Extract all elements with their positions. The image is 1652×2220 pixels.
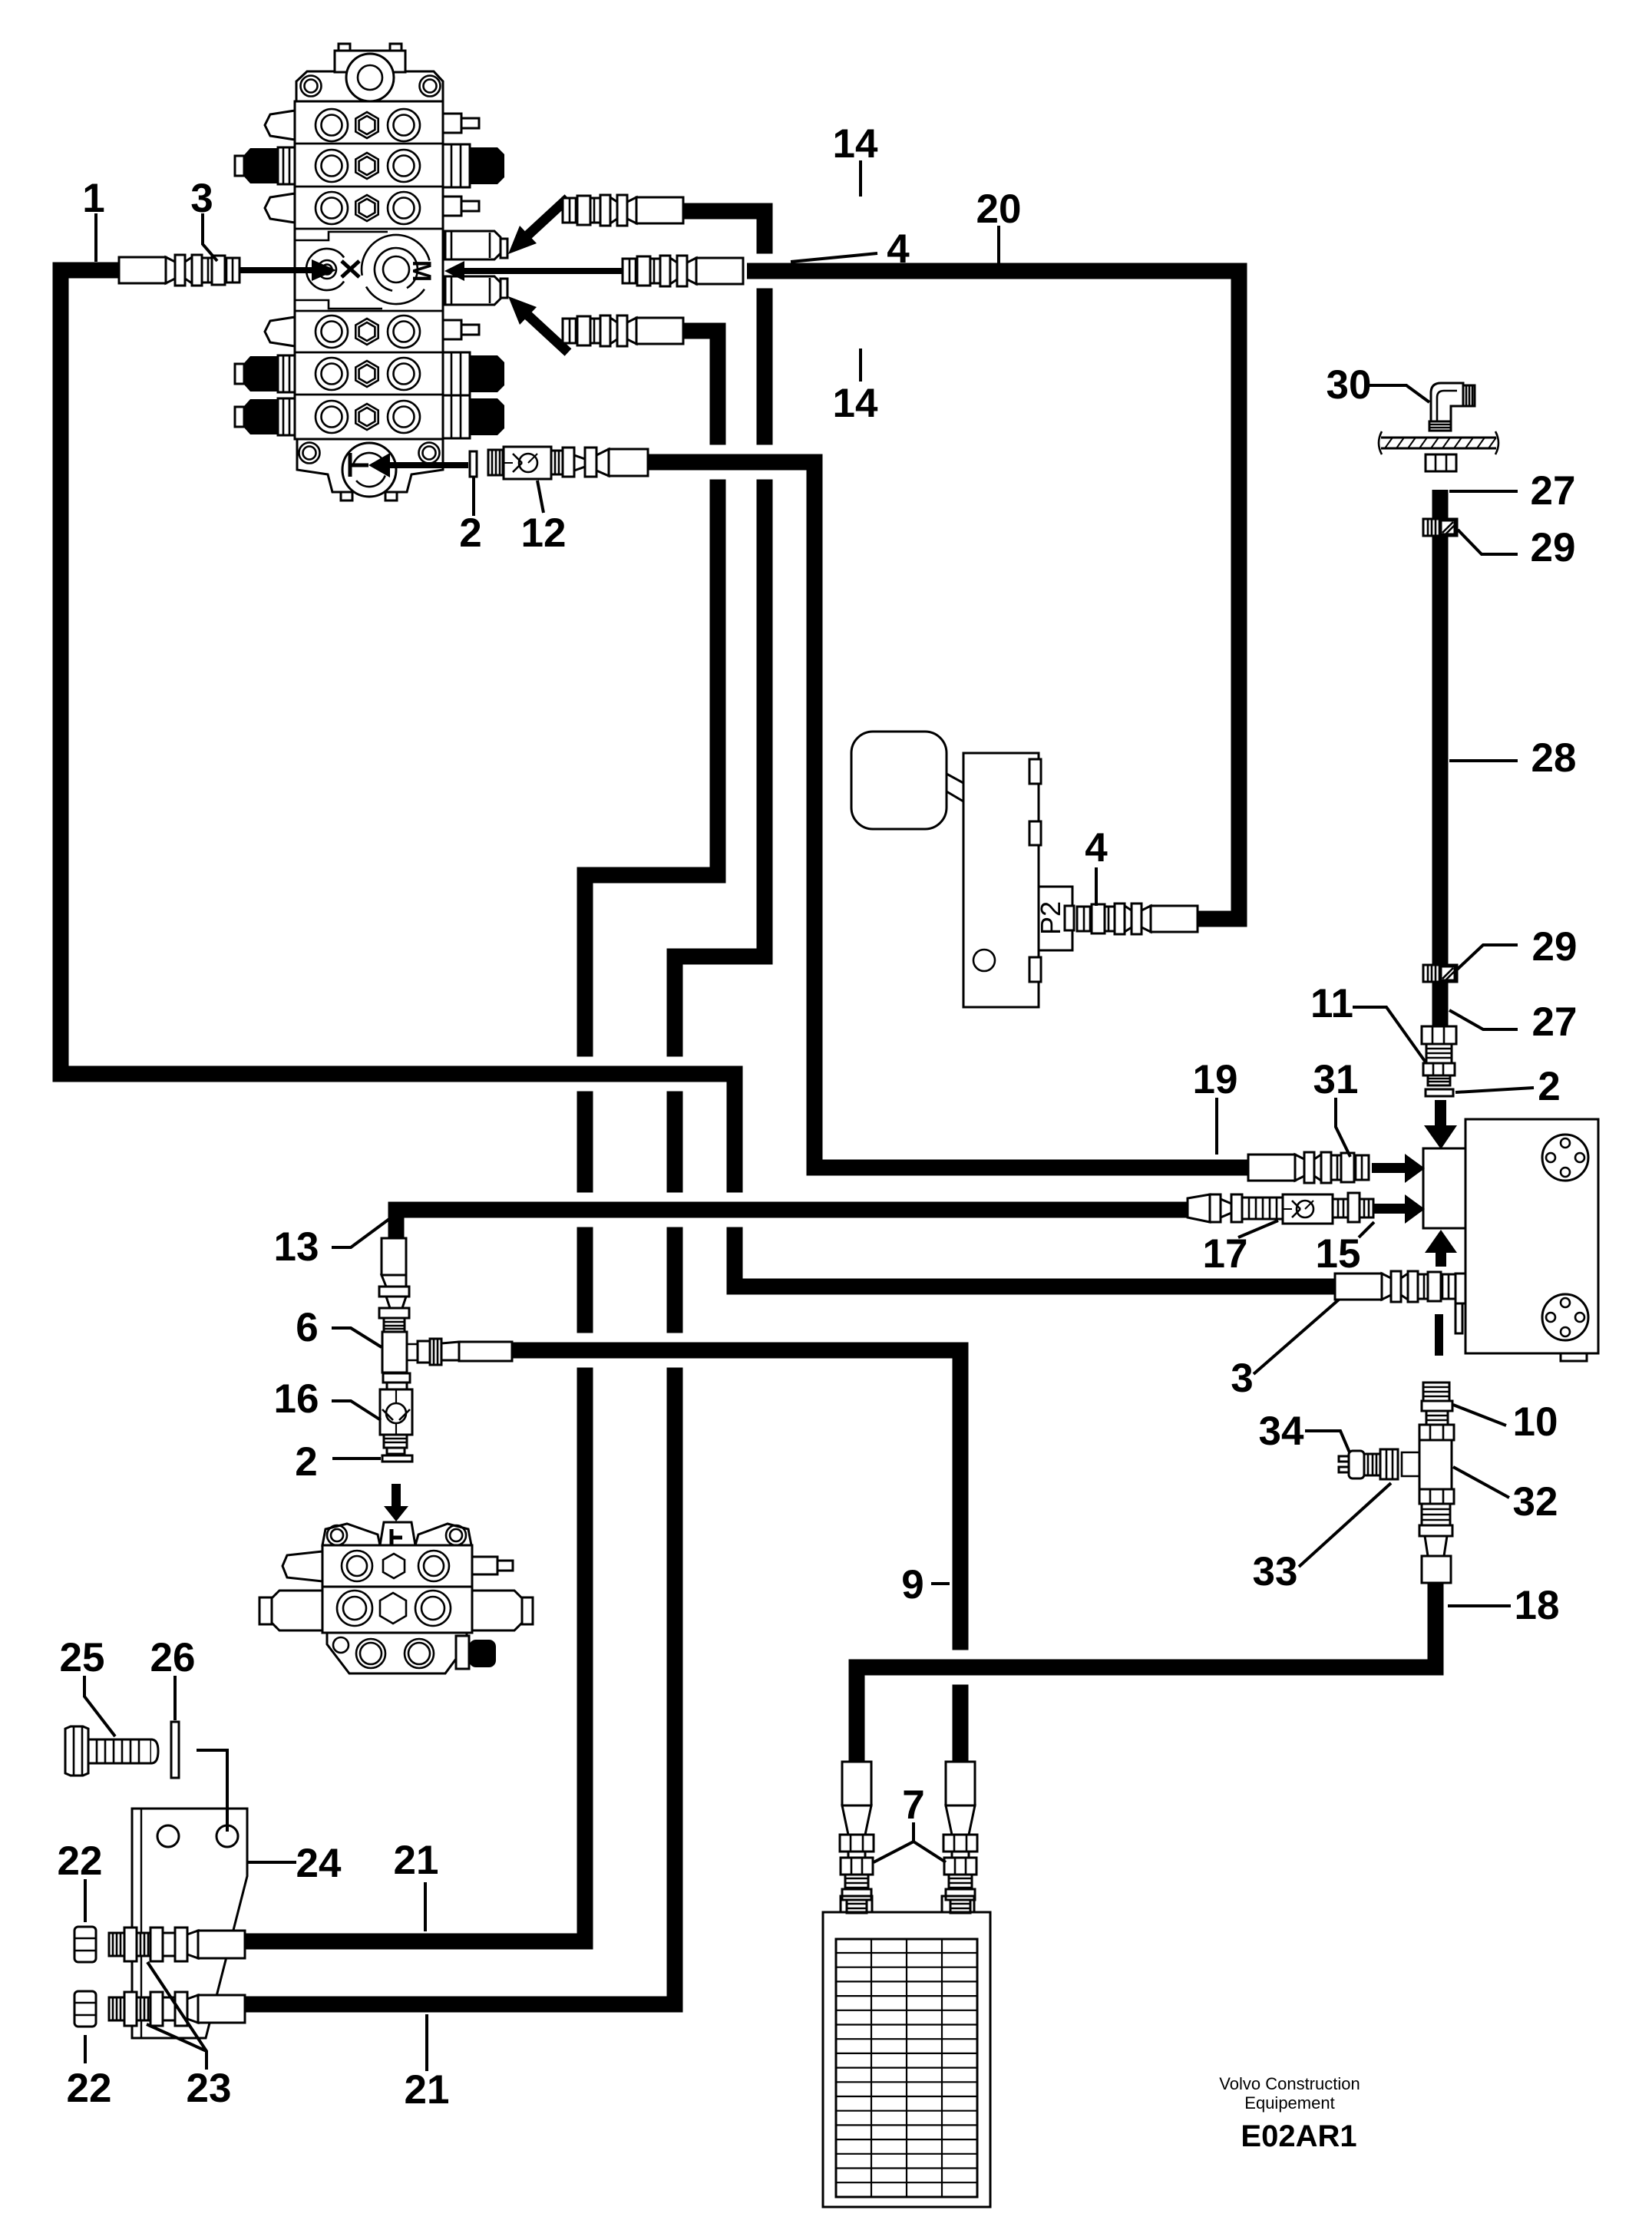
svg-text:22: 22 [67, 2066, 112, 2111]
tee union 32 [1419, 1425, 1454, 1440]
leader 26 [173, 1676, 177, 1720]
service valve left tab [282, 1551, 322, 1581]
arrow into motor top port [1372, 1163, 1405, 1173]
cooler stubs [841, 1896, 872, 1912]
valve left spool tab [265, 317, 295, 346]
T symbol on tab [390, 1529, 394, 1546]
bulkhead nut 27 [1426, 454, 1456, 471]
pedal valve body [963, 753, 1039, 1007]
cap 22 upper [74, 1927, 96, 1962]
leader 17 [1238, 1221, 1278, 1237]
svg-text:P2: P2 [1035, 901, 1066, 935]
svg-text:29: 29 [1532, 924, 1578, 970]
wire hose 9 run to cooler [512, 1350, 960, 1762]
fitting 4 at P2 [1077, 904, 1198, 934]
service valve body row B [322, 1587, 472, 1633]
arrow into port T [390, 462, 468, 468]
washer 2 at port T [470, 451, 477, 477]
threaded end under 16 [384, 1435, 407, 1448]
leader 19 [1215, 1098, 1218, 1155]
leader 2 at T port [472, 477, 475, 516]
valve left spool tab [265, 193, 295, 223]
leader 10 [1453, 1405, 1506, 1425]
svg-text:4: 4 [1085, 825, 1108, 870]
svg-text:2: 2 [295, 1439, 317, 1485]
cap 22 lower [74, 1991, 96, 2027]
service valve body row A [322, 1545, 472, 1587]
bulkhead union 23 row 1 [109, 1933, 124, 1956]
service valve right stub [472, 1557, 497, 1574]
motor side ports [1455, 1274, 1465, 1303]
service valve top tab [380, 1522, 415, 1545]
valve section ports row2 [316, 150, 420, 182]
leader 13 [332, 1219, 389, 1247]
hex under tee [383, 1373, 410, 1383]
service valve black knob [456, 1636, 469, 1669]
leader 1 [94, 213, 97, 262]
svg-text:34: 34 [1259, 1409, 1304, 1454]
leader 18 [1448, 1604, 1511, 1607]
T symbol [349, 453, 352, 477]
leader 27 upper [1449, 490, 1518, 493]
leader pin to bracket hole [197, 1750, 227, 1832]
leader 32 [1453, 1467, 1509, 1498]
svg-text:23: 23 [187, 2066, 232, 2111]
motor bottom tab [1561, 1353, 1587, 1361]
leader 12 [537, 481, 544, 513]
svg-text:27: 27 [1532, 999, 1578, 1045]
leader 29 upper [1458, 530, 1518, 554]
leader 21 upper [424, 1882, 427, 1931]
check valve fitting 12 [488, 450, 503, 475]
relief cartridge upper [445, 231, 501, 259]
wire hose 18 run [857, 1583, 1436, 1762]
svg-text:2: 2 [459, 510, 481, 556]
valve section ports row5 [316, 358, 420, 390]
svg-text:27: 27 [1531, 468, 1576, 514]
pressure switch 34 [1349, 1451, 1364, 1478]
svg-text:24: 24 [296, 1841, 342, 1886]
fitting 11 [1422, 1026, 1456, 1044]
svg-text:Volvo Construction: Volvo Construction [1219, 2074, 1360, 2093]
port P2 box [1039, 887, 1072, 950]
port X [306, 249, 344, 290]
leader 16 [332, 1401, 381, 1420]
bulkhead union 23 row 2 [109, 1997, 124, 2020]
leader 6 [332, 1328, 382, 1347]
svg-text:21: 21 [405, 2067, 450, 2113]
valve pilot section cutout outline [295, 232, 388, 309]
svg-text:30: 30 [1327, 362, 1372, 408]
svg-text:32: 32 [1513, 1479, 1558, 1525]
accumulator [851, 732, 947, 829]
leader 27 lower [1449, 1010, 1518, 1029]
valve right stub [443, 320, 461, 339]
valve top mounting plate [296, 71, 443, 101]
washer 2 right [1426, 1089, 1453, 1096]
valve section ports row3 [316, 192, 420, 224]
svg-text:14: 14 [833, 381, 878, 426]
pin 26 [171, 1722, 179, 1778]
arrow 14 upper (diagonal) [528, 198, 568, 235]
oil cooler body [823, 1912, 990, 2207]
arrow into port X [240, 267, 312, 273]
valve right stub [443, 114, 461, 133]
wire hose 12 run / riser D / hose 19 run [648, 462, 1248, 1168]
leader 4 upper [791, 253, 877, 262]
valve left spool cap (black) [278, 398, 295, 435]
valve section ports row6 [316, 401, 420, 433]
svg-text:12: 12 [521, 510, 567, 556]
leader 3 [203, 213, 217, 261]
fitting 31 on hose 19 [1248, 1152, 1369, 1183]
wire hose 28 run [1432, 490, 1449, 1026]
fitting 10 threaded stud [1423, 1383, 1449, 1401]
leader 33 [1299, 1483, 1391, 1567]
cooler fitting 7 right [943, 1762, 977, 1913]
X symbol [342, 261, 359, 277]
valve section ports row1 [316, 109, 420, 141]
svg-text:31: 31 [1313, 1057, 1359, 1102]
port T circle [342, 443, 396, 497]
valve left spool cap (black) [278, 355, 295, 392]
fitting 4 top [623, 256, 743, 286]
service valve left plug [272, 1591, 322, 1630]
valve top cap [335, 51, 405, 72]
bulkhead plate (hatched) [1381, 437, 1496, 439]
arrow 14 lower (diagonal) [528, 315, 568, 352]
leader 23 [147, 1962, 206, 2070]
leader 2 mid [332, 1457, 381, 1460]
relief cartridge lower [445, 276, 501, 305]
svg-text:7: 7 [902, 1782, 924, 1828]
motor flange upper [1542, 1135, 1588, 1181]
leader 11 [1353, 1007, 1426, 1063]
svg-text:15: 15 [1316, 1231, 1361, 1277]
cooler fitting 7 left [840, 1762, 874, 1913]
leader 2 right [1455, 1088, 1534, 1092]
svg-text:33: 33 [1253, 1549, 1298, 1594]
svg-text:20: 20 [976, 187, 1022, 232]
leader 31 [1336, 1098, 1350, 1157]
bracket 24 [132, 1809, 247, 2038]
port M [383, 256, 409, 282]
valve right spool cap (black) [443, 352, 470, 395]
wire hose 21 upper / riser A / hose 14 lower run [245, 331, 718, 1941]
wire hose 13 run [396, 1210, 1188, 1238]
motor flange lower [1542, 1294, 1588, 1340]
svg-text:21: 21 [394, 1838, 439, 1883]
leader 14 lower [859, 349, 862, 382]
wire hose 20 run to P2 [747, 271, 1239, 919]
leader 7 [874, 1822, 946, 1862]
svg-text:19: 19 [1193, 1057, 1238, 1102]
tee lower fitting to hose 18 [1419, 1489, 1454, 1504]
svg-text:17: 17 [1203, 1231, 1248, 1277]
service valve bottom flange [327, 1633, 467, 1673]
drain line bar below motor [1435, 1314, 1443, 1356]
leader 25 [84, 1676, 115, 1736]
svg-text:1: 1 [82, 176, 104, 221]
washer 2 mid [382, 1455, 412, 1462]
elbow fitting 30 [1431, 383, 1463, 430]
svg-text:Equipement: Equipement [1244, 2093, 1334, 2113]
svg-text:3: 3 [1231, 1356, 1253, 1401]
arrow into port M [464, 268, 623, 274]
svg-text:E02AR1: E02AR1 [1241, 2119, 1356, 2153]
fitting 3 on hose 1 [119, 255, 240, 286]
leader 20 [997, 226, 1000, 263]
svg-text:10: 10 [1513, 1399, 1558, 1445]
svg-text:28: 28 [1531, 735, 1577, 781]
valve bottom flange [297, 439, 443, 492]
leader 30 [1370, 385, 1429, 402]
svg-text:4: 4 [887, 226, 910, 272]
svg-text:6: 6 [296, 1305, 318, 1350]
valve left spool cap (black) [278, 147, 295, 184]
leader 14 upper [859, 160, 862, 197]
svg-text:11: 11 [1310, 981, 1353, 1026]
leader 24 [247, 1861, 296, 1864]
valve body outline [295, 101, 443, 439]
arrow down to port T of service valve [392, 1484, 401, 1506]
leader 3 lower [1254, 1300, 1339, 1374]
cooler core grid [836, 1939, 977, 2197]
fitting 13 [382, 1238, 406, 1275]
fitting 14 lower [563, 315, 683, 346]
svg-text:M: M [407, 260, 436, 282]
leader 28 [1449, 759, 1518, 762]
valve right spool cap (black) [443, 144, 470, 187]
fitting 14 upper [563, 195, 683, 226]
svg-text:13: 13 [274, 1224, 319, 1270]
leader 15 [1359, 1222, 1374, 1237]
service valve ear plate [322, 1524, 471, 1545]
svg-text:25: 25 [60, 1635, 105, 1680]
fitting 3 lower at motor [1335, 1271, 1455, 1302]
hex 33 [1380, 1449, 1398, 1479]
main control valve block [235, 44, 507, 500]
bolt 25 [65, 1726, 88, 1776]
arrow into motor mid port [1373, 1204, 1405, 1214]
valve right spool cap (black) [443, 395, 470, 438]
leader 4 at P2 [1095, 867, 1098, 906]
svg-text:9: 9 [901, 1562, 923, 1607]
svg-text:14: 14 [833, 121, 878, 167]
leader 29 lower [1456, 945, 1518, 970]
wire hose 21 lower / riser B / hose 14 upper run [245, 211, 765, 2004]
check valve 16 [380, 1389, 412, 1435]
svg-text:2: 2 [1538, 1064, 1560, 1109]
leader 21 lower [425, 2014, 428, 2071]
check valve fitting 15/17 [1188, 1194, 1210, 1222]
leader 34 [1305, 1431, 1350, 1452]
leader 9 [931, 1582, 950, 1585]
slew motor body [1465, 1119, 1598, 1353]
arrow up into motor [1425, 1230, 1457, 1253]
tee 6 [382, 1332, 407, 1373]
valve section ports row4 [316, 315, 420, 348]
service valve right plug [472, 1591, 522, 1630]
svg-text:22: 22 [58, 1838, 103, 1884]
wire hose 1 run to motor port 3 [61, 270, 1336, 1287]
motor port block [1423, 1148, 1465, 1228]
svg-text:18: 18 [1515, 1583, 1560, 1628]
valve left spool tab [265, 111, 295, 140]
svg-text:26: 26 [150, 1635, 196, 1680]
valve right stub [443, 197, 461, 216]
svg-text:16: 16 [274, 1376, 319, 1422]
clamp 29 upper [1423, 519, 1457, 536]
leader 22 lower [84, 2035, 87, 2063]
arrow down into slew motor [1435, 1100, 1446, 1125]
clamp 29 lower [1423, 965, 1457, 982]
leader 22 upper [84, 1879, 87, 1922]
svg-text:29: 29 [1531, 525, 1576, 570]
